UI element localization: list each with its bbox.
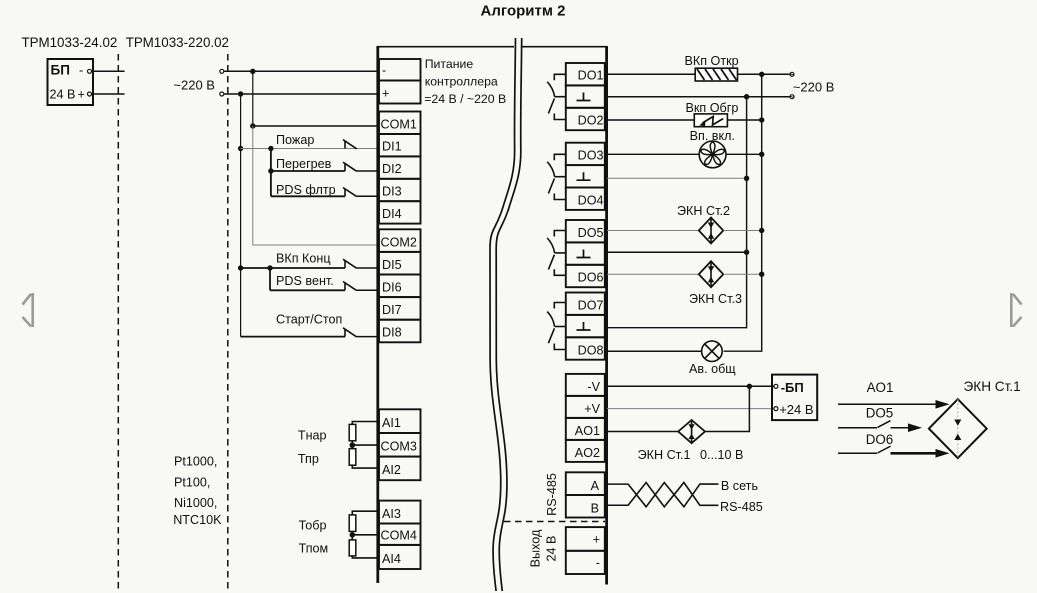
relay contact DO3/DO4 (547, 154, 566, 199)
bus V2 vertical (607, 97, 747, 328)
svg-text:AI4: AI4 (382, 552, 401, 566)
terminal box plus (379, 81, 421, 104)
terminal box DI7 (379, 297, 421, 320)
svg-text:ВКп Конц: ВКп Конц (276, 252, 331, 266)
svg-text:Тпр: Тпр (298, 452, 319, 466)
svg-text:Тпом: Тпом (299, 542, 329, 556)
wire GND1 to bus V2 and 220V (607, 96, 790, 98)
svg-text:=24 В / ~220 В: =24 В / ~220 В (424, 92, 506, 106)
wire RTD1 to COM3 node (351, 441, 353, 445)
svg-text:PDS флтр: PDS флтр (276, 183, 336, 197)
terminal box DO3 (566, 143, 605, 165)
node V1 DO5 (759, 228, 764, 233)
wire DI5 (ВКп Конц) (241, 267, 345, 269)
terminal box DO1 (566, 63, 605, 85)
node V2 GND2 (744, 176, 749, 181)
terminal box GND2 (566, 165, 605, 187)
terminal box GND1 (566, 85, 605, 107)
terminal box B (566, 495, 605, 518)
wire БП plus stub (92, 93, 125, 95)
wire GND2 to bus V2 (607, 177, 747, 179)
node V1 DO3 (759, 152, 764, 157)
220V supply terminal upper (220, 69, 224, 73)
wire DI8 (Старт/Стоп) (241, 336, 345, 338)
wire valve1 to -V riser (705, 386, 749, 431)
svg-text:COM1: COM1 (381, 118, 417, 132)
wire DO1 to actuator (607, 73, 695, 75)
svg-text:Выход: Выход (529, 529, 543, 567)
node DI1 branch (268, 146, 273, 151)
svg-text:DI4: DI4 (382, 207, 402, 221)
switch contact DO5 far right (878, 421, 891, 428)
terminal box DI1 (379, 134, 421, 156)
switch contact DI2 (343, 162, 357, 171)
RTD sensor Тпом (349, 540, 356, 556)
svg-text:~220 В: ~220 В (173, 78, 215, 93)
svg-text:БП: БП (51, 63, 70, 78)
switch contact DI3 (343, 188, 357, 197)
svg-text:ТРМ1033-220.02: ТРМ1033-220.02 (126, 35, 229, 50)
lamp Ав. общ (702, 341, 723, 362)
wire COM3 (352, 444, 377, 446)
svg-text:DI8: DI8 (382, 326, 402, 340)
node V1 DO1 (759, 72, 764, 77)
wire -V to БП24 (607, 385, 774, 387)
svg-text:DO8: DO8 (578, 344, 604, 358)
terminal box GND3 (566, 242, 605, 264)
svg-text:DO2: DO2 (578, 114, 604, 128)
wire valve3 to bus V1 (723, 273, 761, 275)
terminal box DO4 (566, 188, 605, 210)
220V phase terminal upper (790, 72, 794, 76)
wire plus supply to controller (224, 93, 378, 95)
svg-text:DO7: DO7 (578, 299, 604, 313)
svg-text:NTC10K: NTC10K (173, 513, 222, 527)
wire AI4 (352, 556, 377, 558)
switch contact DI5 (343, 259, 357, 268)
wire bus B upper segment (252, 71, 254, 126)
svg-text:ЭКН Ст.1: ЭКН Ст.1 (638, 448, 691, 462)
svg-text:~: ~ (788, 90, 795, 104)
node bus A DI5 (238, 265, 243, 270)
terminal box AO2 (566, 440, 605, 462)
wavy break right (496, 38, 522, 591)
terminal box +V (566, 396, 605, 418)
svg-text:DI2: DI2 (382, 162, 402, 176)
svg-text:Pt1000,: Pt1000, (174, 454, 217, 468)
relay contact DO1/DO2 (547, 74, 566, 119)
power supply БП24 box (772, 375, 817, 421)
svg-text:ЭКН Ст.3: ЭКН Ст.3 (689, 292, 742, 306)
terminal box AI2 (379, 457, 421, 481)
node -V riser (747, 384, 752, 389)
fan symbol (699, 141, 726, 168)
relay contact DO5/DO6 (547, 231, 566, 276)
svg-text:RS-485: RS-485 (545, 473, 559, 516)
RTD sensor Тобр (349, 515, 356, 532)
svg-text:Ав. общ: Ав. общ (689, 362, 736, 376)
wavy break left (490, 38, 516, 591)
svg-text:DO3: DO3 (578, 149, 604, 163)
RTD sensor Тнар (349, 424, 356, 440)
svg-text:-V: -V (587, 380, 600, 394)
dashed boundary line 2 (227, 54, 229, 593)
GND symbols in boxes (577, 93, 591, 331)
node DI5 branch (267, 265, 272, 270)
terminal box DO5 (566, 220, 605, 242)
svg-text:AI1: AI1 (382, 416, 401, 430)
terminal box COM2 (379, 229, 421, 252)
svg-text:Перегрев: Перегрев (276, 157, 332, 171)
wire AI2 (352, 465, 377, 468)
svg-text:RS-485: RS-485 (720, 500, 763, 514)
svg-text:-: - (382, 64, 386, 78)
wire DO8 to lamp (607, 350, 702, 352)
svg-text:DO6: DO6 (866, 432, 894, 447)
RTD sensor Тпр (349, 449, 356, 466)
switch contact DI8 (343, 328, 357, 337)
wire DO5 with switch (838, 427, 877, 429)
svg-text:Тнар: Тнар (298, 429, 327, 443)
node V1 DO6 (759, 272, 764, 277)
svg-text:A: A (591, 479, 600, 493)
wire DI3 (PDS флтр) (271, 195, 345, 197)
svg-text:контроллера: контроллера (425, 75, 498, 89)
svg-text:COM3: COM3 (381, 440, 417, 454)
svg-text:DI1: DI1 (382, 140, 402, 154)
controller top line left (377, 46, 514, 48)
svg-text:DI6: DI6 (382, 281, 402, 295)
node bus A DI1 (238, 146, 243, 151)
wire branch vertical DI5-DI6 (269, 268, 271, 290)
wire AO1 arrow (838, 403, 937, 405)
actuator ВКп Откр (hatched box) (695, 68, 737, 81)
relay contact DO7/DO8 (547, 303, 566, 350)
terminal box A (566, 472, 605, 495)
svg-text:Пожар: Пожар (276, 133, 314, 147)
wire fan to bus V1 (726, 153, 762, 155)
terminal box DO8 (566, 337, 605, 359)
svg-text:DO6: DO6 (578, 271, 604, 285)
terminal box AO1 (566, 418, 605, 440)
svg-text:DI3: DI3 (382, 185, 402, 199)
wire DO6 with switch (838, 452, 877, 454)
node V2 GND1 (744, 94, 749, 99)
controller top line right (521, 46, 607, 48)
terminal box out- (566, 551, 605, 574)
controller right edge (605, 46, 608, 585)
wire DI2 (Перегрев) (271, 170, 345, 172)
terminal box AI1 (379, 409, 421, 433)
svg-text:-: - (79, 64, 83, 78)
valve ЭКН Ст.1 (diamond) (678, 420, 705, 443)
wire DO2 to heater (607, 119, 694, 121)
wire A (607, 483, 629, 485)
wire AI3 (352, 511, 377, 515)
terminal box AI4 (379, 545, 421, 569)
wire COM4 (352, 534, 377, 536)
wire AI1 (352, 422, 377, 425)
terminal box DO7 (566, 293, 605, 315)
svg-text:В сеть: В сеть (721, 479, 759, 493)
svg-text:DO5: DO5 (866, 406, 894, 421)
svg-text:ЭКН Ст.2: ЭКН Ст.2 (677, 204, 730, 218)
heater Вкп Обгр box (694, 114, 727, 127)
wire node to RTD4 (351, 535, 353, 540)
svg-text:COM2: COM2 (381, 236, 417, 250)
node V1 DO2 (759, 117, 764, 122)
svg-text:+24 В: +24 В (779, 402, 813, 417)
svg-text:+V: +V (584, 402, 600, 416)
svg-text:Питание: Питание (425, 57, 474, 71)
wire +V to БП24 (607, 408, 774, 410)
bus V1 vertical (724, 74, 762, 351)
wire actuator to bus V1 (738, 73, 791, 75)
svg-text:-: - (596, 556, 600, 570)
power supply БП box (48, 59, 94, 105)
wire valve2 to bus V1 (723, 230, 761, 232)
switch contact DI6 (343, 282, 357, 291)
svg-text:B: B (591, 502, 599, 516)
twisted pair (628, 483, 718, 507)
terminal box DI5 (379, 252, 421, 275)
node junction on plus wire (238, 91, 243, 96)
terminal box out+ (566, 527, 605, 551)
220V phase terminal lower (790, 95, 794, 99)
svg-text:AO1: AO1 (575, 424, 600, 438)
svg-text:Вкп Обгр: Вкп Обгр (686, 101, 739, 115)
svg-text:DO4: DO4 (578, 194, 604, 208)
svg-text:Pt100,: Pt100, (174, 476, 210, 490)
wire B (607, 504, 629, 506)
БП plus terminal (88, 92, 92, 96)
terminal box COM4 (379, 524, 421, 545)
wire bus B lower segment to COM2 (253, 126, 378, 245)
controller left edge (376, 46, 379, 583)
switch contact DI1 (343, 140, 357, 149)
svg-text:PDS вент.: PDS вент. (276, 274, 334, 288)
wire GND3 to bus V2 (607, 251, 747, 253)
wire DO3 to fan (607, 153, 699, 155)
svg-text:0...10 В: 0...10 В (700, 448, 743, 462)
svg-text:DO1: DO1 (578, 69, 604, 83)
terminal box DI6 (379, 275, 421, 298)
svg-text:Старт/Стоп: Старт/Стоп (276, 313, 342, 327)
terminal box GND4 (566, 315, 605, 337)
node junction COM1 (250, 123, 255, 128)
terminal box DO6 (566, 265, 605, 287)
svg-text:~220 В: ~220 В (793, 80, 835, 95)
svg-text:Алгоритм 2: Алгоритм 2 (481, 3, 566, 20)
wire bus A vertical (240, 94, 242, 337)
svg-text:ВКп Откр: ВКп Откр (685, 54, 739, 68)
dashed boundary line 1 (117, 54, 119, 593)
wire AO1 to valve1 (607, 431, 678, 433)
svg-text:DI5: DI5 (382, 258, 402, 272)
svg-text:Ni1000,: Ni1000, (174, 496, 217, 510)
nav chevron left (23, 293, 33, 327)
node DI2 branch (268, 168, 273, 173)
nav chevron right (1011, 293, 1021, 327)
terminal box DI3 (379, 179, 421, 201)
svg-text:+: + (593, 533, 600, 547)
svg-text:AI3: AI3 (382, 507, 401, 521)
wire heater to bus V1 (727, 119, 761, 121)
valve ЭКН Ст.3 (diamond) (699, 261, 724, 287)
svg-text:24 В: 24 В (545, 536, 559, 562)
svg-text:AI2: AI2 (382, 463, 401, 477)
terminal box DO2 (566, 108, 605, 130)
svg-text:+: + (382, 87, 389, 101)
wire DI6 (PDS вент.) (270, 289, 345, 291)
wire DO6 to valve3 (607, 273, 699, 275)
220V supply terminal lower (220, 92, 224, 96)
node COM3 (350, 442, 356, 448)
terminal box COM3 (379, 433, 421, 457)
БП minus terminal (88, 69, 92, 73)
wire БП minus stub (92, 70, 125, 72)
svg-text:ТРМ1033-24.02: ТРМ1033-24.02 (22, 35, 118, 50)
wire minus supply to controller (224, 70, 378, 72)
wire node to RTD2 (351, 445, 353, 449)
terminal box COM1 (379, 112, 421, 135)
dashed separator Выход 24 В (504, 521, 605, 523)
svg-text:+: + (78, 88, 85, 102)
wire COM1 (253, 125, 378, 127)
terminal box DI8 (379, 320, 421, 343)
svg-text:AO1: AO1 (867, 380, 894, 395)
valve ЭКН Ст.1 big diamond (929, 399, 987, 458)
wire DO5 to valve2 (607, 230, 699, 232)
terminal box minus (379, 59, 421, 81)
svg-text:-БП: -БП (781, 380, 804, 395)
valve ЭКН Ст.2 (diamond) (699, 218, 724, 244)
svg-text:Тобр: Тобр (299, 519, 327, 533)
terminal box DI4 (379, 201, 421, 223)
node V2 GND3 (744, 250, 749, 255)
svg-text:COM4: COM4 (381, 529, 417, 543)
svg-text:AO2: AO2 (575, 446, 600, 460)
terminal box AI3 (379, 501, 421, 524)
switch contact DO6 far right (878, 446, 891, 453)
terminal box DI2 (379, 156, 421, 178)
terminal box -V (566, 374, 605, 396)
node junction on minus wire (250, 69, 255, 74)
svg-text:DI7: DI7 (382, 303, 402, 317)
wire branch vertical DI1-DI3 (270, 149, 272, 197)
wire RTD3 to COM4 node (351, 531, 353, 534)
svg-text:24 В: 24 В (50, 88, 76, 102)
svg-text:DO5: DO5 (578, 226, 604, 240)
wire DI1 (Пожар) (241, 148, 378, 150)
node COM4 (350, 532, 356, 538)
svg-text:ЭКН Ст.1: ЭКН Ст.1 (964, 379, 1021, 394)
